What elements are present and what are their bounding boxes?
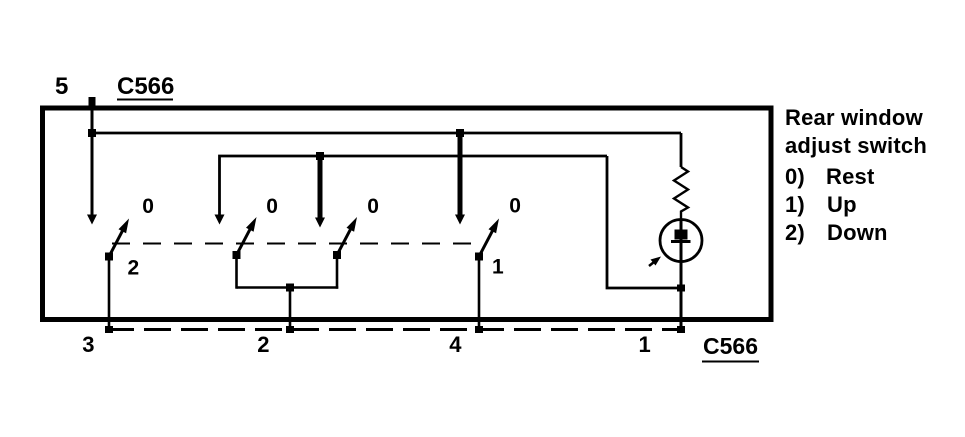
svg-text:Rear window: Rear window: [785, 105, 924, 130]
lamp L1: [660, 220, 702, 262]
svg-text:0: 0: [142, 195, 154, 218]
pin 2 terminal: [286, 326, 294, 333]
pin 3 terminal: [105, 326, 113, 333]
switch S3 (position 0): [333, 217, 357, 259]
pin 5 stub: [89, 97, 96, 109]
node: junction pin5 / supply rail: [88, 129, 96, 137]
svg-text:1: 1: [639, 332, 651, 357]
wire: pin5 vertical to switch S1 contact: [91, 108, 94, 219]
legend text: Rear window adjust switch: [785, 105, 927, 245]
wire: S2/S3 arm tie bar: [237, 286, 339, 289]
svg-text:C566: C566: [703, 333, 758, 359]
node: junction supply rail / S4 contact drop: [456, 129, 464, 137]
switch S2 (position 0): [233, 217, 257, 259]
svg-text:adjust switch: adjust switch: [785, 133, 927, 158]
svg-text:5: 5: [55, 73, 68, 100]
svg-text:C566: C566: [117, 73, 174, 100]
wire: supply rail horizontal: [92, 132, 681, 135]
node: junction lamp rail / S3 contact drop: [316, 152, 324, 160]
wire: S4 arm to pin 4: [478, 257, 481, 332]
node: junction lamp bottom: [677, 285, 685, 292]
node: junction tie bar / pin 2: [286, 284, 294, 292]
svg-text:0: 0: [367, 195, 379, 218]
svg-text:Down: Down: [827, 220, 888, 245]
contact tick S4: [455, 215, 465, 225]
wire: S1 arm to pin 3: [108, 257, 111, 332]
connector C566 top label: [117, 73, 174, 100]
wire: tie bar to pin 2: [289, 288, 292, 332]
svg-text:2): 2): [785, 220, 805, 245]
svg-text:2: 2: [128, 257, 140, 280]
svg-text:Rest: Rest: [826, 164, 875, 189]
wire: lamp rail down and across to lamp bottom node: [607, 156, 681, 288]
resistor R1 feed wire: [680, 133, 683, 167]
svg-text:1: 1: [492, 256, 504, 279]
wire: S3 arm down: [336, 255, 339, 289]
wire: lamp bottom to pin 1: [680, 261, 683, 332]
svg-text:Up: Up: [827, 192, 857, 217]
svg-text:2: 2: [257, 332, 269, 357]
svg-text:3: 3: [82, 332, 94, 357]
switch S4 (pins 5-4, positions 0/1): [475, 219, 499, 261]
svg-text:0): 0): [785, 164, 805, 189]
mechanical linkage dashed line: [112, 243, 481, 245]
svg-text:1): 1): [785, 192, 805, 217]
switch housing box: [43, 108, 772, 320]
wire: S2 arm down: [235, 255, 238, 289]
wire: drop to switch S4 contact: [458, 133, 463, 218]
pin 1 terminal: [677, 326, 685, 333]
svg-text:0: 0: [266, 195, 278, 218]
switch S1 (pins 5-3, positions 0/2): [105, 219, 129, 261]
contact tick S3: [315, 218, 325, 228]
pin 4 terminal: [475, 326, 483, 333]
wire: drop to switch S3 contact: [318, 153, 323, 221]
contact tick S2: [215, 215, 225, 225]
svg-text:4: 4: [449, 332, 462, 357]
connector C566 bottom label: [702, 333, 759, 362]
wire: lamp rail horizontal: [220, 156, 608, 219]
contact tick S1: [87, 215, 97, 225]
connector C566 dashed boundary: [107, 328, 682, 331]
svg-text:0: 0: [509, 195, 521, 218]
resistor R1: [674, 167, 688, 220]
lamp indicator arrow: [649, 257, 661, 267]
